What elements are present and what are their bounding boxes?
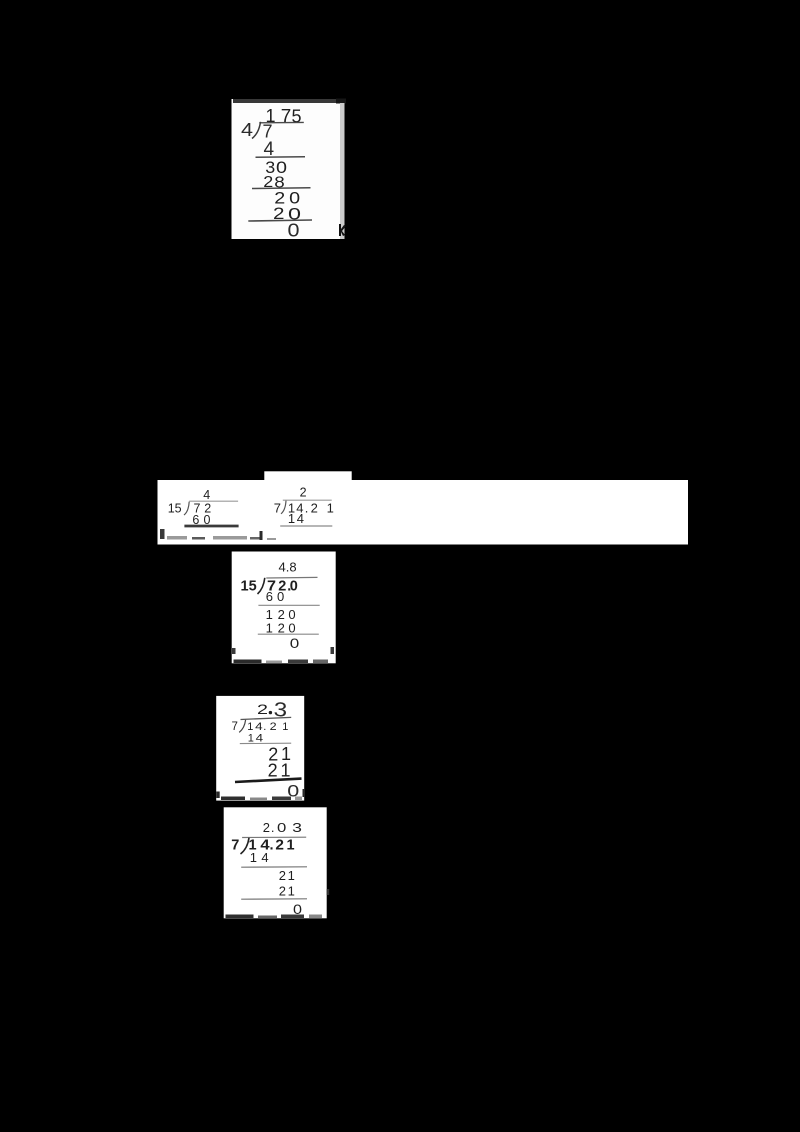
box1 top dark bar — [233, 99, 336, 103]
box1 row 20 a — [274, 188, 300, 207]
box3 vinculum — [266, 576, 317, 579]
svg-text:2: 2 — [275, 838, 284, 854]
svg-text:15: 15 — [241, 579, 257, 595]
svg-text:4: 4 — [297, 511, 304, 526]
svg-text:4: 4 — [256, 732, 264, 744]
svg-text:2: 2 — [300, 485, 307, 499]
box2 right dividend 14.21 — [288, 500, 334, 515]
svg-text:1: 1 — [266, 620, 273, 635]
box5 vinculum — [242, 836, 306, 838]
box1 row 20 b — [273, 204, 301, 223]
box4 row 14 — [248, 732, 264, 744]
box1 line3 — [248, 220, 312, 221]
svg-text:0: 0 — [277, 820, 286, 835]
box2 left dividend 72 — [194, 501, 212, 515]
svg-text:1: 1 — [288, 511, 295, 526]
box4 vinculum — [241, 717, 292, 719]
box5 quotient 2.03 — [263, 820, 302, 835]
box1 vinculum — [259, 121, 304, 123]
svg-text:15: 15 — [168, 501, 182, 515]
box4 thin line — [240, 742, 291, 744]
svg-text:.: . — [305, 500, 309, 515]
svg-text:4: 4 — [241, 120, 253, 140]
svg-text:2: 2 — [311, 500, 318, 515]
svg-text:2: 2 — [270, 721, 277, 733]
box4 quotient dot — [269, 711, 272, 714]
box1 bracket curve — [252, 122, 261, 139]
svg-text:0: 0 — [290, 579, 298, 595]
box4 dividend 14.21 — [247, 721, 288, 733]
svg-text:0: 0 — [290, 635, 300, 651]
box4 bracket — [239, 720, 245, 733]
box5 row 14 — [250, 850, 269, 865]
svg-text:5: 5 — [292, 107, 302, 127]
svg-text:0: 0 — [288, 221, 300, 241]
svg-text:3: 3 — [292, 820, 302, 835]
svg-text:1: 1 — [250, 850, 257, 865]
box2 left row 60 — [192, 513, 210, 527]
svg-text:.: . — [270, 838, 274, 854]
svg-text:1: 1 — [288, 868, 295, 883]
box3 row 120 a — [266, 607, 296, 622]
svg-text:1: 1 — [248, 732, 254, 744]
box5 line2 — [241, 866, 307, 868]
box5 right edge colon mark — [327, 889, 330, 895]
box2 bottom smudge row — [160, 529, 276, 540]
box3 line3 — [258, 633, 319, 635]
box5 white panel (14.21 div 7 = 2.03) — [224, 807, 327, 918]
svg-text:0: 0 — [277, 589, 284, 604]
svg-text:6: 6 — [266, 589, 273, 604]
box1 row 28 — [263, 174, 285, 192]
box1 white panel (7 divided by 4) — [232, 99, 347, 240]
svg-text:1: 1 — [282, 721, 288, 733]
box1 row 30 — [265, 158, 287, 177]
box3 line2 — [258, 604, 319, 606]
box3 white panel (72 div 15 = 4.8) — [232, 552, 336, 664]
box5 row 21 a — [279, 868, 295, 883]
svg-text:4: 4 — [203, 488, 210, 502]
box1 line2 — [252, 187, 311, 190]
svg-text:2: 2 — [279, 868, 286, 883]
box2 left bracket — [184, 502, 189, 515]
svg-text:2: 2 — [263, 820, 270, 835]
svg-text:7: 7 — [232, 721, 238, 733]
box1 right gray strip — [340, 103, 345, 239]
svg-text:.: . — [263, 721, 266, 733]
svg-text:7: 7 — [274, 500, 281, 515]
svg-text:7: 7 — [231, 838, 239, 854]
box5 row 21 b — [279, 883, 295, 898]
box3 dividend 72.0 — [267, 579, 298, 595]
box3 bottom smudges — [232, 647, 334, 663]
box5 line3 — [241, 898, 307, 900]
svg-text:1: 1 — [288, 883, 295, 898]
svg-text:4.8: 4.8 — [279, 559, 297, 574]
svg-text:4: 4 — [255, 721, 263, 733]
box2 right vinculum — [283, 499, 332, 501]
box4 hand bold underline — [235, 779, 302, 782]
svg-text:1: 1 — [327, 500, 334, 515]
box4 hand 21 a — [268, 744, 291, 764]
svg-text:1: 1 — [281, 760, 291, 780]
box5 bracket — [241, 838, 250, 854]
svg-text:1: 1 — [287, 838, 295, 854]
box2 right bracket — [281, 501, 286, 514]
svg-text:0: 0 — [288, 620, 295, 635]
svg-text:2: 2 — [257, 702, 268, 717]
box2 right thin underline — [280, 525, 332, 527]
box2 right row 14 — [288, 511, 304, 526]
box1 quotient digits 1 7 5 — [266, 106, 302, 127]
box4 white panel (14.21 div 7 = 2.3 hand) — [216, 696, 304, 801]
box5 bottom smudges — [226, 915, 323, 919]
box1 cursor mark bottom right — [339, 224, 346, 236]
box3 row 120 b — [266, 620, 296, 635]
box1 line1 — [256, 156, 306, 159]
svg-text:4: 4 — [261, 850, 268, 865]
svg-text:1: 1 — [247, 721, 253, 733]
box2 wide white strip — [158, 471, 689, 544]
box2 left vinculum — [189, 500, 238, 502]
box2 raised notch — [264, 471, 351, 481]
svg-text:2: 2 — [278, 620, 285, 635]
box4 bottom smudges — [216, 789, 305, 800]
box5 dividend 14.21 bold — [249, 838, 295, 854]
svg-text:2: 2 — [268, 761, 278, 781]
box4 hand 21 b — [268, 760, 291, 780]
box3 row 60 — [266, 589, 284, 604]
box2 left bold underline — [184, 525, 238, 528]
svg-text:2: 2 — [279, 883, 286, 898]
svg-text:.: . — [271, 820, 275, 835]
box3 bracket — [258, 578, 265, 594]
